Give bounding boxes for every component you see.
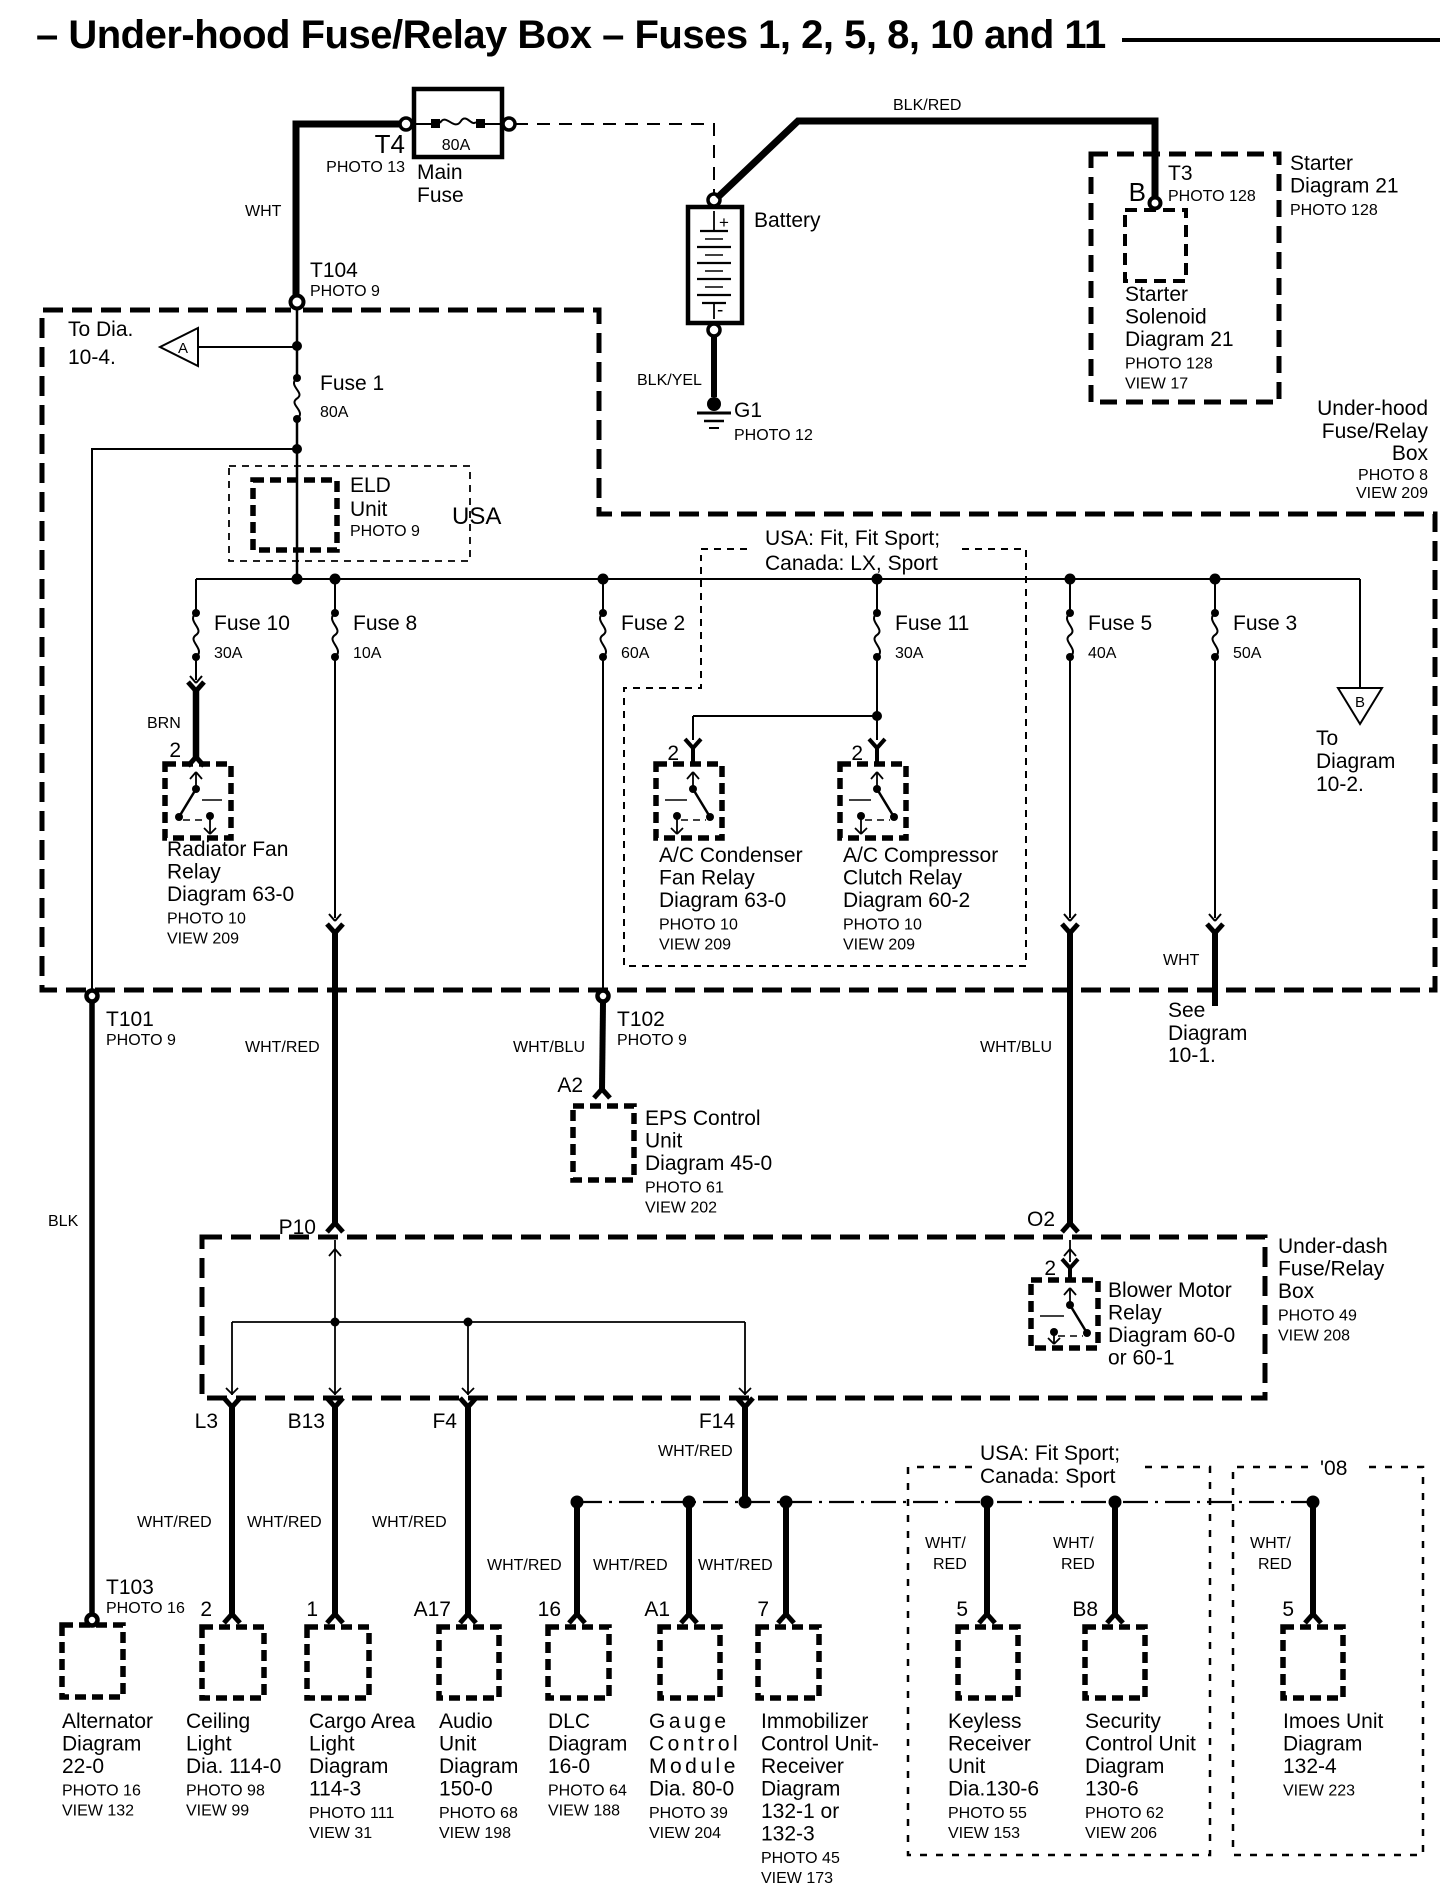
wire fuse 11 drop xyxy=(876,579,878,613)
svg-text:Immobilizer: Immobilizer xyxy=(761,1710,868,1733)
svg-text:VIEW 202: VIEW 202 xyxy=(645,1200,717,1217)
svg-text:PHOTO 128: PHOTO 128 xyxy=(1168,188,1256,205)
svg-text:PHOTO 68: PHOTO 68 xyxy=(439,1805,518,1822)
svg-text:Gauge: Gauge xyxy=(649,1710,730,1733)
svg-text:USA: Fit Sport;: USA: Fit Sport; xyxy=(980,1442,1120,1465)
svg-text:PHOTO 8: PHOTO 8 xyxy=(1358,467,1428,484)
junction xyxy=(683,1496,696,1509)
svg-text:Fuse/Relay: Fuse/Relay xyxy=(1322,420,1429,443)
ceiling light xyxy=(202,1627,264,1698)
wire WHT/BLU to A2 xyxy=(602,1003,603,1090)
svg-text:10-2.: 10-2. xyxy=(1316,773,1364,796)
svg-text:Fuse 11: Fuse 11 xyxy=(895,612,969,635)
svg-text:RED: RED xyxy=(933,1556,967,1573)
svg-text:Radiator Fan: Radiator Fan xyxy=(167,838,288,861)
fuse F8 10A xyxy=(331,609,339,617)
svg-text:WHT/RED: WHT/RED xyxy=(247,1514,322,1531)
wire WHT/RED B13 to cargo light xyxy=(332,1462,338,1615)
svg-text:A/C Condenser: A/C Condenser xyxy=(659,844,803,867)
svg-text:B8: B8 xyxy=(1072,1598,1098,1621)
wire WHT/RED to immobilizer xyxy=(783,1502,789,1615)
svg-text:Light: Light xyxy=(186,1733,232,1756)
svg-text:PHOTO 12: PHOTO 12 xyxy=(734,427,813,444)
svg-text:Starter: Starter xyxy=(1125,283,1188,306)
fuse F11 30A xyxy=(873,609,881,617)
svg-text:80A: 80A xyxy=(320,404,349,421)
junction xyxy=(464,1318,473,1327)
arrow B to diagram 10-2 xyxy=(1338,688,1382,724)
svg-text:5: 5 xyxy=(1282,1598,1294,1621)
svg-text:WHT: WHT xyxy=(1163,952,1200,969)
junction xyxy=(981,1496,994,1509)
svg-text:132-4: 132-4 xyxy=(1283,1755,1337,1778)
junction xyxy=(739,1496,752,1509)
svg-text:T3: T3 xyxy=(1168,162,1193,185)
starter outer box xyxy=(1091,154,1279,402)
wire WHT/RED F14 to bus xyxy=(742,1462,748,1502)
svg-text:B: B xyxy=(1129,177,1146,207)
svg-text:Security: Security xyxy=(1085,1710,1161,1733)
svg-text:PHOTO 55: PHOTO 55 xyxy=(948,1805,1027,1822)
svg-text:10-4.: 10-4. xyxy=(68,346,116,369)
svg-text:WHT/RED: WHT/RED xyxy=(137,1514,212,1531)
svg-text:132-3: 132-3 xyxy=(761,1823,815,1846)
ground G1 xyxy=(707,397,721,411)
connector T102 xyxy=(598,991,609,1002)
svg-text:80A: 80A xyxy=(442,137,471,154)
svg-text:Alternator: Alternator xyxy=(62,1710,153,1733)
svg-text:VIEW 209: VIEW 209 xyxy=(167,931,239,948)
wire dashed T4 to battery xyxy=(515,124,714,194)
svg-text:A17: A17 xyxy=(414,1598,451,1621)
wire fuse 3 drop xyxy=(1214,579,1216,613)
svg-text:Fuse 5: Fuse 5 xyxy=(1088,612,1152,635)
svg-text:Clutch Relay: Clutch Relay xyxy=(843,867,963,890)
relay A/C condenser fan xyxy=(656,764,722,838)
fuse F3 50A xyxy=(1211,609,1219,617)
svg-text:F14: F14 xyxy=(699,1410,736,1433)
wire fuse 8 drop xyxy=(334,579,336,613)
svg-text:Cargo Area: Cargo Area xyxy=(309,1710,416,1733)
svg-text:Blower Motor: Blower Motor xyxy=(1108,1279,1232,1302)
svg-text:Ceiling: Ceiling xyxy=(186,1710,250,1733)
svg-text:PHOTO 16: PHOTO 16 xyxy=(62,1783,141,1800)
svg-text:16: 16 xyxy=(538,1598,561,1621)
junction xyxy=(1065,574,1076,585)
svg-text:'08: '08 xyxy=(1320,1457,1347,1480)
svg-text:VIEW 198: VIEW 198 xyxy=(439,1825,511,1842)
svg-text:VIEW 188: VIEW 188 xyxy=(548,1803,620,1820)
svg-text:30A: 30A xyxy=(895,645,924,662)
junction xyxy=(292,341,302,351)
wire BRN xyxy=(193,690,200,758)
svg-text:Imoes Unit: Imoes Unit xyxy=(1283,1710,1384,1733)
wire WHT/RED F4 to audio unit xyxy=(465,1462,471,1615)
svg-text:16-0: 16-0 xyxy=(548,1755,590,1778)
svg-text:VIEW 173: VIEW 173 xyxy=(761,1870,833,1887)
svg-text:Diagram 21: Diagram 21 xyxy=(1290,175,1399,198)
wire WHT/RED L3 to ceiling light xyxy=(229,1462,235,1615)
svg-text:PHOTO 10: PHOTO 10 xyxy=(659,917,738,934)
relay radiator fan xyxy=(165,764,231,838)
svg-text:PHOTO 64: PHOTO 64 xyxy=(548,1783,627,1800)
wire WHT/RED to keyless receiver xyxy=(984,1502,990,1615)
svg-text:2: 2 xyxy=(200,1598,212,1621)
svg-text:22-0: 22-0 xyxy=(62,1755,104,1778)
svg-text:Diagram: Diagram xyxy=(761,1778,840,1801)
svg-text:VIEW 209: VIEW 209 xyxy=(659,937,731,954)
svg-text:WHT/: WHT/ xyxy=(1053,1535,1094,1552)
svg-text:10A: 10A xyxy=(353,645,382,662)
svg-text:L3: L3 xyxy=(195,1410,218,1433)
junction xyxy=(1307,1496,1320,1509)
svg-text:WHT/RED: WHT/RED xyxy=(593,1557,668,1574)
wire BLK/YEL xyxy=(711,336,717,397)
fuse F1 80A xyxy=(293,374,301,382)
svg-text:WHT: WHT xyxy=(245,203,282,220)
svg-text:-: - xyxy=(717,300,723,321)
svg-text:Relay: Relay xyxy=(167,861,221,884)
wire internal drop F4 xyxy=(467,1322,469,1395)
svg-text:+: + xyxy=(719,213,729,232)
svg-text:PHOTO 9: PHOTO 9 xyxy=(350,523,420,540)
svg-text:50A: 50A xyxy=(1233,645,1262,662)
svg-text:VIEW 31: VIEW 31 xyxy=(309,1825,372,1842)
svg-text:Starter: Starter xyxy=(1290,152,1353,175)
svg-text:PHOTO 62: PHOTO 62 xyxy=(1085,1805,1164,1822)
svg-text:B: B xyxy=(1355,694,1365,711)
svg-text:WHT/: WHT/ xyxy=(1250,1535,1291,1552)
svg-text:Fuse 10: Fuse 10 xyxy=(214,612,290,635)
svg-text:10-1.: 10-1. xyxy=(1168,1044,1216,1067)
svg-text:Canada: LX, Sport: Canada: LX, Sport xyxy=(765,552,938,575)
svg-text:EPS Control: EPS Control xyxy=(645,1107,761,1130)
wire BLK/RED xyxy=(717,121,1155,198)
svg-text:VIEW 132: VIEW 132 xyxy=(62,1803,134,1820)
svg-text:USA: Fit, Fit Sport;: USA: Fit, Fit Sport; xyxy=(765,527,940,550)
region box USA Fit Fit Sport Canada LX Sport xyxy=(701,548,748,550)
svg-text:Fuse: Fuse xyxy=(417,184,464,207)
svg-text:Diagram 21: Diagram 21 xyxy=(1125,328,1234,351)
wire fuse 5 to O2 xyxy=(1069,657,1071,918)
EPS control unit xyxy=(573,1106,634,1180)
svg-text:WHT/RED: WHT/RED xyxy=(698,1557,773,1574)
wire WHT/RED to security control unit xyxy=(1112,1502,1118,1615)
svg-text:VIEW 17: VIEW 17 xyxy=(1125,376,1188,393)
wire bus xyxy=(196,578,1360,580)
wire WHT/RED to gauge control module xyxy=(686,1502,692,1615)
svg-text:PHOTO 9: PHOTO 9 xyxy=(617,1032,687,1049)
svg-text:BLK/RED: BLK/RED xyxy=(893,97,961,114)
svg-text:Diagram: Diagram xyxy=(439,1755,518,1778)
wire BLK xyxy=(89,1003,95,1615)
svg-text:WHT/RED: WHT/RED xyxy=(658,1443,733,1460)
wire to A arrow xyxy=(198,346,297,348)
connector T103 xyxy=(87,1615,98,1626)
svg-text:Audio: Audio xyxy=(439,1710,493,1733)
region box USA Fit Sport Canada Sport xyxy=(908,1467,1210,1855)
svg-text:Diagram: Diagram xyxy=(1168,1022,1247,1045)
connector F14 xyxy=(742,1406,748,1462)
svg-text:Box: Box xyxy=(1392,442,1429,465)
svg-text:PHOTO 98: PHOTO 98 xyxy=(186,1783,265,1800)
fuse F5 40A xyxy=(1066,609,1074,617)
svg-text:A/C Compressor: A/C Compressor xyxy=(843,844,998,867)
svg-text:Dia. 114-0: Dia. 114-0 xyxy=(186,1755,281,1778)
svg-text:Diagram 63-0: Diagram 63-0 xyxy=(659,889,786,912)
svg-text:Fuse 2: Fuse 2 xyxy=(621,612,685,635)
svg-text:Receiver: Receiver xyxy=(948,1733,1031,1756)
wire fuse 8 to P10 xyxy=(334,657,336,918)
svg-text:PHOTO 111: PHOTO 111 xyxy=(309,1805,394,1822)
svg-text:Canada: Sport: Canada: Sport xyxy=(980,1465,1116,1488)
connector pin 2 blower xyxy=(1062,1259,1070,1268)
svg-text:ELD: ELD xyxy=(350,474,391,497)
svg-text:Receiver: Receiver xyxy=(761,1755,844,1778)
svg-text:Unit: Unit xyxy=(439,1733,477,1756)
svg-text:VIEW 206: VIEW 206 xyxy=(1085,1825,1157,1842)
junction xyxy=(780,1496,793,1509)
wire fuse 10 drop xyxy=(195,579,197,613)
svg-text:150-0: 150-0 xyxy=(439,1778,493,1801)
relay A/C compressor clutch xyxy=(840,764,906,838)
svg-text:Diagram: Diagram xyxy=(1085,1755,1164,1778)
junction xyxy=(330,574,341,585)
svg-text:PHOTO 13: PHOTO 13 xyxy=(326,159,405,176)
svg-text:PHOTO 49: PHOTO 49 xyxy=(1278,1308,1357,1325)
wire fuse 2 drop xyxy=(602,579,604,613)
svg-text:VIEW 208: VIEW 208 xyxy=(1278,1328,1350,1345)
svg-text:BLK: BLK xyxy=(48,1213,79,1230)
svg-text:T104: T104 xyxy=(310,259,358,282)
connector B13 xyxy=(332,1406,338,1462)
svg-text:T101: T101 xyxy=(106,1008,154,1031)
svg-text:Fan Relay: Fan Relay xyxy=(659,867,755,890)
svg-text:132-1 or: 132-1 or xyxy=(761,1800,839,1823)
svg-text:Diagram: Diagram xyxy=(309,1755,388,1778)
svg-text:VIEW 209: VIEW 209 xyxy=(1356,485,1428,502)
svg-text:1: 1 xyxy=(306,1598,318,1621)
svg-text:VIEW 153: VIEW 153 xyxy=(948,1825,1020,1842)
keyless receiver unit xyxy=(958,1627,1018,1698)
svg-text:A1: A1 xyxy=(644,1598,670,1621)
svg-text:PHOTO 45: PHOTO 45 xyxy=(761,1850,840,1867)
svg-text:30A: 30A xyxy=(214,645,243,662)
wire WHT xyxy=(296,124,406,302)
imoes unit xyxy=(1283,1627,1343,1698)
svg-text:PHOTO 9: PHOTO 9 xyxy=(106,1032,176,1049)
svg-text:Dia.130-6: Dia.130-6 xyxy=(948,1778,1039,1801)
svg-text:Keyless: Keyless xyxy=(948,1710,1022,1733)
wire internal drop F14 xyxy=(744,1322,746,1395)
svg-text:Module: Module xyxy=(649,1755,739,1778)
svg-text:Unit: Unit xyxy=(948,1755,986,1778)
junction xyxy=(872,574,883,585)
svg-text:PHOTO 39: PHOTO 39 xyxy=(649,1805,728,1822)
svg-text:2: 2 xyxy=(1044,1257,1056,1280)
svg-text:G1: G1 xyxy=(734,399,762,422)
svg-text:PHOTO 9: PHOTO 9 xyxy=(310,283,380,300)
svg-text:See: See xyxy=(1168,999,1205,1022)
svg-text:Under-hood: Under-hood xyxy=(1317,397,1428,420)
relay blower motor xyxy=(1031,1280,1098,1348)
wire fuse 11 to relays xyxy=(876,657,878,716)
ELD unit outer box xyxy=(229,466,470,561)
svg-text:130-6: 130-6 xyxy=(1085,1778,1139,1801)
svg-text:T103: T103 xyxy=(106,1576,154,1599)
wire left branch xyxy=(92,449,297,990)
wire to radiator fan relay xyxy=(195,657,197,680)
svg-text:PHOTO 128: PHOTO 128 xyxy=(1125,356,1213,373)
svg-text:114-3: 114-3 xyxy=(309,1778,361,1801)
battery xyxy=(688,207,742,323)
junction xyxy=(1109,1496,1122,1509)
audio unit xyxy=(439,1627,499,1698)
junction xyxy=(292,444,302,454)
svg-text:Fuse 8: Fuse 8 xyxy=(353,612,417,635)
wire dash-dot bus xyxy=(577,1501,1313,1503)
wire fuse 5 drop xyxy=(1069,579,1071,613)
connector T3 xyxy=(1150,198,1161,209)
svg-text:PHOTO 61: PHOTO 61 xyxy=(645,1180,724,1197)
svg-text:WHT/RED: WHT/RED xyxy=(487,1557,562,1574)
fuse F2 60A xyxy=(599,609,607,617)
svg-text:BRN: BRN xyxy=(147,715,181,732)
svg-text:Light: Light xyxy=(309,1733,355,1756)
wire fuse 2 to T102 xyxy=(602,657,604,991)
fuse F10 30A xyxy=(192,609,200,617)
svg-text:Diagram 45-0: Diagram 45-0 xyxy=(645,1152,772,1175)
svg-text:To Dia.: To Dia. xyxy=(68,318,133,341)
svg-text:7: 7 xyxy=(757,1598,769,1621)
svg-text:RED: RED xyxy=(1258,1556,1292,1573)
alternator xyxy=(62,1625,123,1697)
svg-text:40A: 40A xyxy=(1088,645,1117,662)
connector T101 xyxy=(87,991,98,1002)
svg-text:BLK/YEL: BLK/YEL xyxy=(637,372,702,389)
junction xyxy=(331,1318,340,1327)
wire O2 to blower relay xyxy=(1069,1240,1071,1262)
svg-text:RED: RED xyxy=(1061,1556,1095,1573)
ELD unit xyxy=(253,480,337,550)
svg-text:Unit: Unit xyxy=(350,498,388,521)
svg-text:B13: B13 xyxy=(288,1410,325,1433)
svg-text:WHT/: WHT/ xyxy=(925,1535,966,1552)
svg-text:Under-dash: Under-dash xyxy=(1278,1235,1388,1258)
title rule xyxy=(1122,38,1440,42)
svg-text:WHT/RED: WHT/RED xyxy=(245,1039,320,1056)
junction xyxy=(571,1496,584,1509)
junction xyxy=(1210,574,1221,585)
svg-text:or 60-1: or 60-1 xyxy=(1108,1347,1175,1370)
svg-text:Diagram: Diagram xyxy=(1316,750,1395,773)
svg-text:Diagram: Diagram xyxy=(548,1733,627,1756)
region box '08 xyxy=(1233,1467,1423,1855)
wire internal B13 riser xyxy=(334,1240,336,1395)
gauge control module xyxy=(660,1627,720,1698)
svg-text:Control: Control xyxy=(649,1733,741,1756)
connector pin 2 compressor xyxy=(869,739,877,748)
svg-text:Diagram 60-0: Diagram 60-0 xyxy=(1108,1324,1235,1347)
wire fuse 3 WHT xyxy=(1214,657,1216,918)
wire to B arrow xyxy=(1359,579,1361,688)
connector pin 2 condenser xyxy=(685,739,693,748)
wire main line xyxy=(296,309,299,378)
svg-text:T102: T102 xyxy=(617,1008,665,1031)
wire WHT/RED to DLC xyxy=(574,1502,580,1615)
svg-text:PHOTO 10: PHOTO 10 xyxy=(843,917,922,934)
svg-text:Battery: Battery xyxy=(754,209,821,232)
svg-text:2: 2 xyxy=(169,739,181,762)
svg-text:PHOTO 10: PHOTO 10 xyxy=(167,911,246,928)
svg-text:A2: A2 xyxy=(557,1074,583,1097)
svg-text:Box: Box xyxy=(1278,1280,1315,1303)
connector L3 xyxy=(229,1406,235,1462)
connector T104 xyxy=(291,296,304,309)
wire internal crossbar xyxy=(232,1321,745,1323)
svg-text:Solenoid: Solenoid xyxy=(1125,306,1207,329)
arrow A to diagram 10-4 xyxy=(160,328,198,366)
svg-text:Diagram 63-0: Diagram 63-0 xyxy=(167,883,294,906)
cargo area light xyxy=(307,1627,369,1698)
svg-text:Fuse/Relay: Fuse/Relay xyxy=(1278,1258,1385,1281)
svg-text:Fuse 1: Fuse 1 xyxy=(320,372,384,395)
fuse T4 main fuse 80A xyxy=(414,89,502,157)
DLC xyxy=(548,1627,609,1698)
svg-text:VIEW 209: VIEW 209 xyxy=(843,937,915,954)
svg-text:O2: O2 xyxy=(1027,1208,1055,1231)
svg-text:WHT/BLU: WHT/BLU xyxy=(513,1039,585,1056)
svg-text:To: To xyxy=(1316,727,1338,750)
svg-text:DLC: DLC xyxy=(548,1710,590,1733)
starter solenoid xyxy=(1125,210,1186,281)
svg-text:USA: USA xyxy=(452,503,501,530)
svg-text:Diagram: Diagram xyxy=(62,1733,141,1756)
svg-text:F4: F4 xyxy=(432,1410,457,1433)
svg-text:Diagram: Diagram xyxy=(1283,1733,1362,1756)
wire internal drop L3 xyxy=(231,1322,233,1395)
svg-text:Main: Main xyxy=(417,161,463,184)
svg-text:Fuse 3: Fuse 3 xyxy=(1233,612,1297,635)
svg-text:VIEW 99: VIEW 99 xyxy=(186,1803,249,1820)
under-hood fuse/relay box xyxy=(42,310,1435,990)
svg-text:Diagram 60-2: Diagram 60-2 xyxy=(843,889,970,912)
svg-text:WHT/BLU: WHT/BLU xyxy=(980,1039,1052,1056)
svg-text:VIEW 204: VIEW 204 xyxy=(649,1825,721,1842)
svg-text:VIEW 223: VIEW 223 xyxy=(1283,1783,1355,1800)
svg-text:5: 5 xyxy=(956,1598,968,1621)
svg-text:60A: 60A xyxy=(621,645,650,662)
security control unit xyxy=(1085,1627,1145,1698)
svg-text:Relay: Relay xyxy=(1108,1302,1162,1325)
svg-text:PHOTO 128: PHOTO 128 xyxy=(1290,202,1378,219)
junction xyxy=(598,574,609,585)
svg-text:Unit: Unit xyxy=(645,1130,683,1153)
under-dash fuse/relay box xyxy=(202,1237,1265,1398)
wire WHT/RED to imoes unit xyxy=(1310,1502,1316,1615)
svg-text:Dia. 80-0: Dia. 80-0 xyxy=(649,1778,734,1801)
svg-text:PHOTO 16: PHOTO 16 xyxy=(106,1600,185,1617)
svg-text:WHT/RED: WHT/RED xyxy=(372,1514,447,1531)
svg-text:– Under-hood Fuse/Relay Box –: – Under-hood Fuse/Relay Box – Fuses 1, 2… xyxy=(36,13,1106,57)
svg-text:T4: T4 xyxy=(375,129,405,159)
connector F4 xyxy=(465,1406,471,1462)
svg-text:Control Unit: Control Unit xyxy=(1085,1733,1196,1756)
junction xyxy=(292,574,303,585)
svg-text:A: A xyxy=(178,340,188,357)
immobilizer control unit-receiver xyxy=(758,1627,819,1698)
svg-text:Control Unit-: Control Unit- xyxy=(761,1733,879,1756)
